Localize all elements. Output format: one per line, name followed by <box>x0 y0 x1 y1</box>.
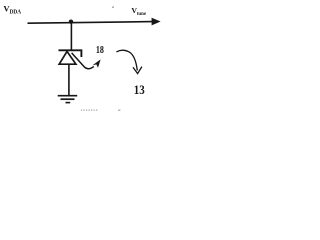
leader arrow to numeral 18 <box>72 53 94 69</box>
wire node to varactor cathode <box>70 22 72 51</box>
node Vtune label <box>131 6 146 17</box>
arrowhead of leader 18 <box>93 59 101 67</box>
node VDDA label <box>3 4 21 16</box>
varactor diode 18 anode triangle <box>59 51 76 64</box>
wire VDDA to node <box>28 22 153 24</box>
svg-text:18: 18 <box>96 45 104 56</box>
svg-text:DDA: DDA <box>10 10 22 16</box>
node junction dot <box>69 20 73 24</box>
arrowhead of leader 13 <box>133 67 142 74</box>
scan speckle top <box>112 6 114 8</box>
svg-text:13: 13 <box>134 82 145 97</box>
svg-text:tune: tune <box>137 11 147 17</box>
curved arrow to numeral 13 <box>116 50 137 70</box>
scan dotted artifact bottom <box>81 109 98 111</box>
wire anode to ground <box>68 64 70 95</box>
arrow to Vtune output <box>152 18 161 26</box>
ground <box>58 96 77 103</box>
varactor diode 18 cathode bar <box>59 50 82 57</box>
